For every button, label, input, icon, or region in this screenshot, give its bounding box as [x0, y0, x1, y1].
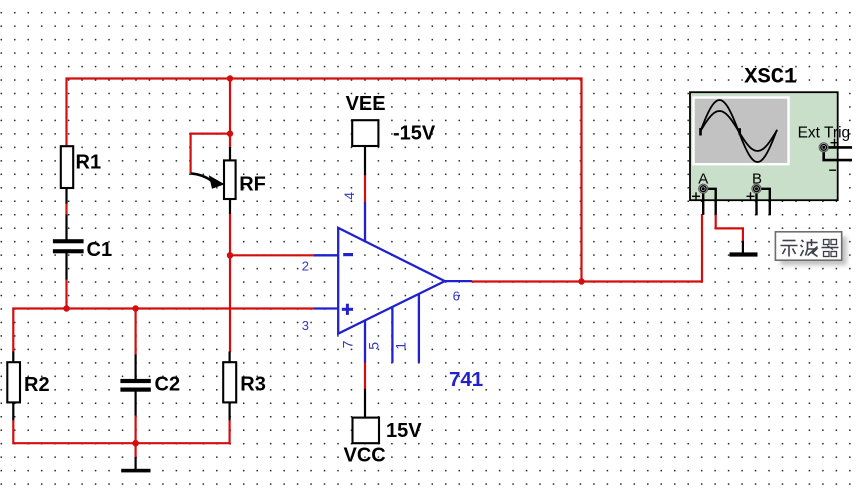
- svg-text:VCC: VCC: [344, 445, 386, 467]
- svg-text:B: B: [752, 170, 762, 187]
- svg-text:R1: R1: [76, 152, 102, 174]
- svg-text:-15V: -15V: [393, 123, 436, 145]
- svg-text:A: A: [698, 170, 708, 187]
- svg-text:1: 1: [392, 342, 408, 350]
- svg-text:C1: C1: [87, 239, 113, 261]
- svg-text:R2: R2: [24, 374, 50, 396]
- svg-text:R3: R3: [240, 374, 266, 396]
- svg-text:6: 6: [453, 288, 460, 303]
- svg-text:15V: 15V: [386, 420, 422, 442]
- svg-text:3: 3: [302, 318, 309, 333]
- svg-text:XSC1: XSC1: [744, 65, 797, 90]
- svg-text:2: 2: [302, 259, 309, 274]
- svg-text:4: 4: [341, 192, 357, 200]
- svg-text:741: 741: [449, 368, 483, 391]
- svg-text:7: 7: [339, 340, 355, 348]
- svg-text:VEE: VEE: [346, 93, 386, 115]
- svg-text:RF: RF: [239, 173, 266, 195]
- svg-text:Ext Trig: Ext Trig: [798, 125, 851, 142]
- svg-text:5: 5: [366, 342, 382, 350]
- svg-text:C2: C2: [155, 374, 181, 396]
